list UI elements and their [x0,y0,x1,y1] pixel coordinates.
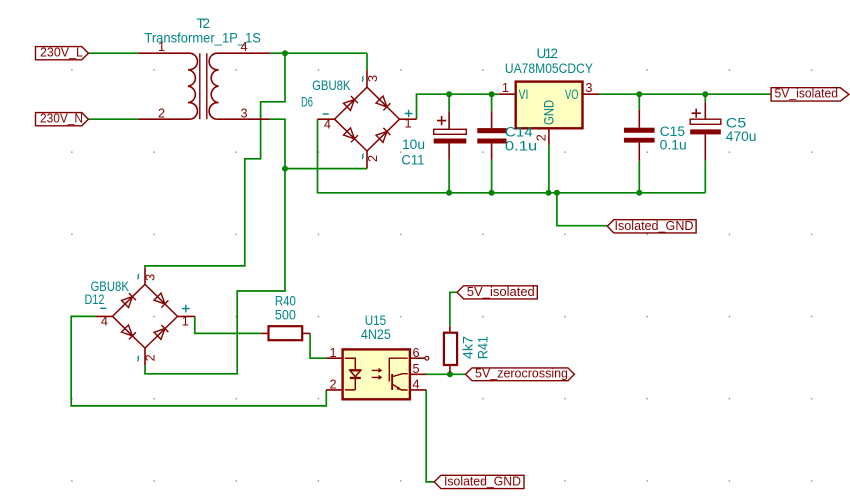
svg-text:10u: 10u [402,137,425,152]
svg-text:1: 1 [502,81,509,95]
svg-text:4: 4 [412,378,419,392]
svg-text:5V_isolated: 5V_isolated [467,284,535,299]
svg-text:UA78M05CDCY: UA78M05CDCY [505,61,593,76]
svg-text:5: 5 [412,362,419,376]
svg-text:3: 3 [366,75,380,82]
svg-text:4: 4 [101,315,108,329]
svg-text:500: 500 [275,307,296,322]
svg-text:2: 2 [366,155,380,162]
svg-text:4N25: 4N25 [361,327,391,342]
svg-text:GBU8K: GBU8K [312,78,350,93]
svg-text:Isolated_GND: Isolated_GND [444,474,521,489]
svg-text:3: 3 [240,107,247,121]
svg-text:470u: 470u [726,129,757,144]
svg-text:230V_L: 230V_L [40,44,83,59]
svg-text:2: 2 [535,134,549,141]
svg-text:5V_isolated: 5V_isolated [775,86,839,101]
svg-text:1: 1 [182,315,189,329]
svg-text:C11: C11 [401,153,424,168]
svg-text:T2: T2 [197,16,211,31]
svg-text:3: 3 [585,81,592,95]
svg-text:230V_N: 230V_N [40,110,83,125]
svg-text:1: 1 [404,117,411,131]
svg-text:4k7: 4k7 [460,336,475,359]
svg-text:C14: C14 [505,125,533,140]
svg-text:2: 2 [329,378,336,392]
svg-text:U15: U15 [365,313,387,328]
svg-text:5V_zerocrossing: 5V_zerocrossing [475,366,568,381]
svg-text:R41: R41 [476,336,491,359]
svg-text:3: 3 [143,274,157,281]
svg-text:2: 2 [158,107,165,121]
svg-text:6: 6 [412,346,419,360]
svg-text:VO: VO [565,87,579,102]
svg-text:2: 2 [143,354,157,361]
svg-text:D12: D12 [85,292,105,307]
svg-text:U12: U12 [537,46,559,61]
svg-text:VI: VI [519,87,529,102]
svg-text:4: 4 [324,117,331,131]
svg-text:D6: D6 [301,94,313,109]
svg-text:1: 1 [158,40,165,54]
svg-text:R40: R40 [275,293,296,308]
svg-text:0.1u: 0.1u [505,139,537,154]
svg-text:0.1u: 0.1u [660,138,687,153]
svg-text:1: 1 [329,346,336,360]
svg-text:GND: GND [542,100,557,125]
svg-text:Isolated_GND: Isolated_GND [615,218,694,233]
svg-text:4: 4 [240,40,247,54]
